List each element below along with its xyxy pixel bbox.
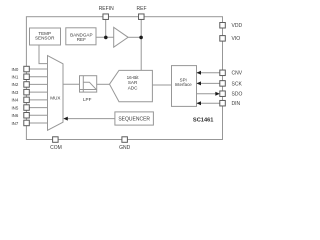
svg-text:IN5: IN5 bbox=[11, 105, 18, 110]
svg-text:SEQUENCER: SEQUENCER bbox=[118, 116, 150, 122]
svg-text:IN2: IN2 bbox=[11, 82, 18, 87]
svg-text:IN4: IN4 bbox=[11, 98, 18, 103]
svg-text:CNV: CNV bbox=[232, 71, 243, 77]
svg-text:IN0: IN0 bbox=[11, 67, 18, 72]
svg-text:LPF: LPF bbox=[83, 97, 92, 102]
svg-text:DIN: DIN bbox=[232, 101, 241, 107]
svg-text:SAR: SAR bbox=[128, 80, 138, 85]
svg-text:REF: REF bbox=[77, 37, 86, 42]
svg-text:IN7: IN7 bbox=[11, 121, 18, 126]
svg-text:IN3: IN3 bbox=[11, 90, 18, 95]
svg-text:ADC: ADC bbox=[128, 86, 138, 91]
svg-text:VDD: VDD bbox=[232, 23, 243, 29]
svg-text:SC1461: SC1461 bbox=[193, 118, 214, 124]
svg-text:COM: COM bbox=[50, 145, 62, 151]
svg-text:16-Bit: 16-Bit bbox=[127, 75, 140, 80]
svg-text:Interface: Interface bbox=[175, 82, 193, 87]
svg-text:REFIN: REFIN bbox=[99, 6, 114, 12]
svg-text:GND: GND bbox=[119, 145, 131, 151]
svg-text:REF: REF bbox=[137, 6, 147, 12]
svg-text:SDO: SDO bbox=[232, 91, 243, 97]
svg-text:SENSOR: SENSOR bbox=[35, 36, 55, 41]
svg-text:IN1: IN1 bbox=[11, 75, 18, 80]
svg-text:SCK: SCK bbox=[232, 81, 243, 87]
svg-text:MUX: MUX bbox=[50, 95, 60, 100]
svg-text:VIO: VIO bbox=[232, 36, 241, 42]
svg-text:IN6: IN6 bbox=[11, 113, 18, 118]
